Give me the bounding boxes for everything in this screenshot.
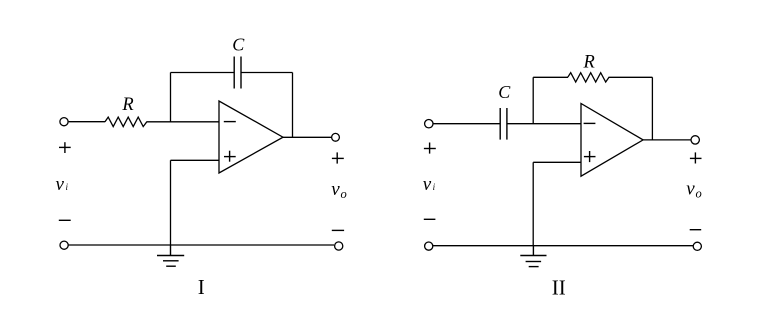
svg-text:R: R xyxy=(583,52,595,72)
wire: feedback top right segment xyxy=(241,72,293,74)
wire: feedback top left segment xyxy=(171,72,235,74)
terminal: input bottom (II) xyxy=(425,242,433,250)
svg-text:I: I xyxy=(198,275,205,299)
ground (II) xyxy=(520,246,546,267)
svg-text:vo: vo xyxy=(331,179,346,201)
wire: input terminal to resistor R xyxy=(69,121,106,123)
svg-text:R: R xyxy=(121,95,133,115)
label: op-amp U2 non-inverting pin plus sign xyxy=(584,151,596,162)
svg-text:II: II xyxy=(552,275,566,299)
terminal: input top (I) xyxy=(60,118,68,126)
wire: feedback right vertical to output node xyxy=(292,73,294,138)
terminal: output top (I) xyxy=(332,133,340,141)
ground (I) xyxy=(157,245,184,266)
wire: feedback right vertical to output node (II) xyxy=(651,77,653,140)
resistor R xyxy=(105,117,147,127)
terminal: input bottom (I) xyxy=(60,241,68,249)
label: minus polarity at vi (II) xyxy=(424,218,436,220)
resistor R (feedback, II) xyxy=(568,73,609,82)
terminal: output bottom (II) xyxy=(693,242,701,250)
terminal: output top (II) xyxy=(691,136,699,144)
capacitor C (input, II) xyxy=(500,108,507,140)
wire: non-inverting input vertical to ground bus xyxy=(170,160,172,245)
svg-text:vi: vi xyxy=(423,174,436,195)
wire: op-amp output to terminal (II) xyxy=(643,139,691,141)
label: plus polarity at vo (II) xyxy=(690,152,702,163)
label: plus polarity at vi (II) xyxy=(424,143,436,154)
svg-text:vi: vi xyxy=(56,174,69,195)
label: minus polarity at vo (I) xyxy=(332,229,344,231)
label: plus polarity at vi (I) xyxy=(59,142,71,153)
wire: feedback top left segment (II) xyxy=(533,76,568,78)
op-amp U1 xyxy=(219,101,283,173)
wire: bottom bus (I) xyxy=(68,244,334,246)
label: op-amp U1 inverting pin minus sign xyxy=(224,121,236,123)
op-amp U2 xyxy=(581,104,643,177)
wire: feedback top right segment (II) xyxy=(609,76,653,78)
wire: input terminal to capacitor C xyxy=(433,123,500,125)
capacitor C (feedback) xyxy=(234,57,241,89)
wire: capacitor to op-amp inverting input xyxy=(507,123,581,125)
wire: op-amp output to terminal xyxy=(283,136,332,138)
svg-text:C: C xyxy=(232,35,245,55)
svg-text:C: C xyxy=(498,82,511,102)
label: plus polarity at vo (I) xyxy=(332,152,344,163)
wire: resistor to op-amp inverting input xyxy=(147,121,220,123)
terminal: input top (II) xyxy=(425,120,433,128)
label: minus polarity at vi (I) xyxy=(59,219,71,221)
label: op-amp U1 non-inverting pin plus sign xyxy=(224,151,236,162)
label: op-amp U2 inverting pin minus sign xyxy=(584,122,596,124)
terminal: output bottom (I) xyxy=(335,242,343,250)
wire: non-inverting input horizontal xyxy=(171,159,220,161)
label: minus polarity at vo (II) xyxy=(690,229,702,231)
wire: non-inverting input vertical to ground bus (II) xyxy=(532,162,534,245)
svg-text:vo: vo xyxy=(686,179,701,201)
wire: feedback left vertical (node A, inverting input) xyxy=(170,73,172,122)
wire: feedback left vertical (node B, inverting input) xyxy=(532,77,534,123)
wire: bottom bus (II) xyxy=(433,245,693,247)
wire: non-inverting input horizontal (II) xyxy=(533,161,581,163)
